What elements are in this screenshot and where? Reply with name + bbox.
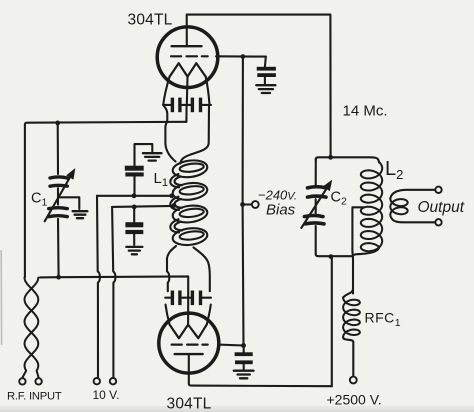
- capacitors filament bypass pair (top): [163, 104, 211, 106]
- wire L2 tap: [352, 207, 364, 293]
- C2 rotor arrow: [301, 183, 330, 228]
- wire output link bottom lead: [392, 219, 435, 223]
- junction C1 top: [55, 121, 60, 126]
- tube V2 304TL (bottom) envelope: [159, 313, 219, 373]
- capacitor bypass 2: [133, 207, 135, 222]
- svg-text:10 V.: 10 V.: [93, 388, 120, 402]
- wire RF input line: [40, 276, 188, 297]
- wire bias line vertical: [242, 57, 245, 346]
- wire grid rail (left): [25, 122, 187, 278]
- C1 stator tap to ground: [58, 197, 79, 209]
- junction V2 grid / bias: [241, 343, 246, 348]
- capacitor C2 (split stator): [315, 159, 317, 186]
- wire RFC1 top lead: [343, 289, 353, 298]
- svg-text:304TL: 304TL: [167, 396, 212, 412]
- twisted pair RF input wire a: [23, 278, 39, 378]
- svg-text:14 Mc.: 14 Mc.: [343, 103, 388, 120]
- wire output link top lead: [390, 190, 435, 199]
- junction bias tap: [240, 202, 245, 207]
- wire tank bottom to bus: [331, 256, 333, 386]
- wire V2 grid to bias line: [218, 344, 244, 347]
- junction bypass cap 1: [132, 193, 137, 198]
- V1 filament: [170, 63, 206, 76]
- wire 10V feed 2 (jog over RF line): [112, 207, 115, 377]
- wire 10V feed 1 (jog over RF line): [97, 196, 100, 377]
- wire tank bottom rail: [316, 254, 353, 257]
- V1 filament leg left: [163, 77, 169, 105]
- svg-text:R.F. INPUT: R.F. INPUT: [7, 391, 62, 403]
- V2 filament leg left: [166, 305, 170, 325]
- wire V1 plate lead to tank top: [187, 15, 331, 158]
- junction C1 bottom: [56, 275, 61, 280]
- wire L1 tap 1: [97, 195, 172, 197]
- output link coil: [390, 199, 407, 219]
- V1 filament leg center: [186, 77, 189, 105]
- junction grid V1 / bias line: [241, 54, 246, 59]
- twisted pair RF input wire b: [25, 278, 39, 378]
- inductor L2: [361, 162, 382, 251]
- svg-text:Bias: Bias: [266, 202, 296, 219]
- V2 filament: [170, 325, 207, 339]
- C1 rotor arrow: [45, 172, 73, 221]
- wire L2 bottom lead: [355, 247, 380, 255]
- wire caps right lead down to L1: [180, 105, 209, 164]
- tube V1 304TL (top) envelope: [157, 27, 218, 88]
- ground (C1 tap): [73, 210, 88, 212]
- wire V1 grid to bias node: [216, 55, 266, 57]
- wire RFC1 to +2500V terminal: [343, 337, 353, 376]
- ground (V2 grid bypass): [234, 370, 254, 372]
- ground (V1 grid bypass): [256, 84, 275, 86]
- inductor L1 (bifilar loops): [172, 159, 209, 180]
- junction plate feed / tank top: [328, 155, 333, 160]
- capacitor V2 grid bypass: [243, 346, 245, 353]
- V1 grid (dashed): [171, 55, 208, 57]
- terminal -240V bias stub: [243, 203, 252, 205]
- wire tank top rail: [316, 157, 379, 162]
- choke RFC1: [343, 298, 360, 338]
- ground (bypass 1): [143, 152, 162, 154]
- V2 filament leg center: [187, 298, 189, 325]
- wire caps left lead down to L1 (jog over rail): [163, 105, 175, 162]
- wire caps middle to grid rail end: [185, 105, 187, 122]
- junction L1 tap 2: [172, 203, 177, 208]
- svg-text:304TL: 304TL: [128, 12, 173, 29]
- svg-text:Output: Output: [418, 199, 465, 216]
- V2 plate: [175, 353, 203, 355]
- wire L1 tap 2: [112, 206, 174, 207]
- svg-text:−240V.: −240V.: [258, 188, 297, 203]
- V1 plate: [172, 45, 202, 47]
- terminal RF input a: [19, 378, 25, 384]
- ground (bypass 2): [126, 246, 142, 248]
- capacitor bypass 1: [133, 176, 135, 196]
- wire V2 plate to bottom bus: [189, 354, 332, 386]
- terminal 10V b: [110, 378, 116, 384]
- V2 filament leg right: [207, 305, 211, 325]
- junction tank bottom / plate bus: [329, 254, 334, 259]
- capacitors filament bypass pair (bottom): [165, 297, 211, 299]
- junction bypass cap 2: [132, 205, 137, 210]
- junction L1 tap 1: [169, 193, 174, 198]
- wire L1 bottom right to caps: [194, 248, 210, 292]
- V1 filament leg right: [206, 77, 210, 105]
- V2 grid (dashed): [172, 344, 208, 346]
- svg-text:+2500 V.: +2500 V.: [327, 392, 382, 408]
- terminal 10V a: [94, 378, 100, 384]
- wire L1 bottom left to caps (jog over RF line): [167, 246, 176, 291]
- terminal output b: [435, 219, 441, 225]
- capacitor V1 grid bypass: [264, 57, 267, 67]
- capacitor C1 (split stator): [57, 123, 59, 174]
- terminal output a: [435, 187, 441, 193]
- terminal +2500V: [350, 377, 357, 384]
- terminal RF input b: [35, 378, 41, 384]
